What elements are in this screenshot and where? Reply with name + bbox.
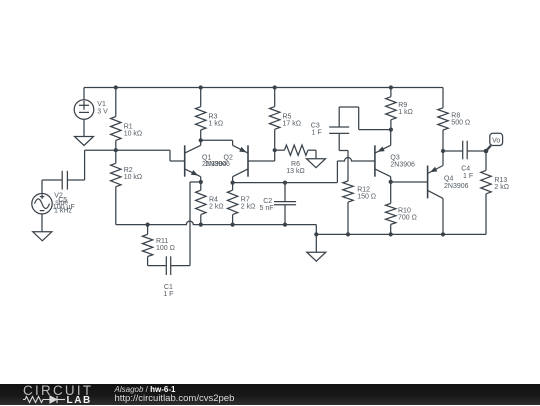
label C5 value — [53, 197, 75, 211]
wire top supply rail — [84, 87, 443, 89]
ground below V1 — [75, 137, 94, 146]
svg-text:1 kΩ: 1 kΩ — [209, 121, 224, 128]
wire lower emitter rail — [116, 221, 316, 234]
node R11 top — [146, 223, 150, 227]
svg-text:C4: C4 — [461, 166, 470, 173]
node top rail / R3 — [199, 85, 203, 89]
resistor R13 — [481, 151, 491, 234]
wire to Vo flag — [486, 146, 491, 151]
svg-text:R7: R7 — [241, 197, 250, 204]
label C2 5 nF — [260, 198, 274, 212]
svg-text:2 kΩ: 2 kΩ — [209, 204, 224, 211]
resistor R7 — [227, 183, 237, 225]
svg-text:1 F: 1 F — [312, 130, 322, 137]
resistor R10 — [386, 182, 396, 235]
svg-text:R10: R10 — [398, 208, 411, 215]
svg-text:1 F: 1 F — [163, 291, 173, 298]
svg-text:R3: R3 — [209, 114, 218, 121]
voltage source V2 — [32, 194, 52, 214]
svg-text:10 kΩ: 10 kΩ — [124, 131, 142, 138]
label R5 17 k — [283, 114, 301, 128]
label R13 2 k — [494, 177, 509, 191]
svg-text:R12: R12 — [357, 187, 370, 194]
capacitor C3 — [329, 107, 391, 133]
wire Q3 collector to Q4 base — [391, 181, 428, 183]
resistor R6 — [275, 145, 316, 159]
node R12 bottom — [346, 232, 350, 236]
svg-text:10 kΩ: 10 kΩ — [124, 174, 142, 181]
node R5/R6/Q2 base — [273, 148, 277, 152]
wire V2 to ground — [41, 214, 43, 232]
capacitor C4 — [443, 141, 486, 160]
svg-text:V1: V1 — [97, 101, 106, 108]
wire Q1 emitter to C1 — [171, 182, 201, 266]
resistor R1 — [111, 88, 121, 151]
resistor R4 — [196, 182, 206, 225]
svg-text:R5: R5 — [283, 114, 292, 121]
svg-text:Q4: Q4 — [444, 176, 453, 183]
node C2 bottom — [283, 223, 287, 227]
node R10 bottom — [389, 232, 393, 236]
label C3 1 F — [311, 122, 322, 136]
flag Vo — [490, 133, 503, 145]
svg-text:100 μF: 100 μF — [53, 204, 75, 211]
svg-text:700 Ω: 700 Ω — [398, 215, 417, 222]
svg-text:C5: C5 — [58, 197, 67, 204]
label V2 sine source — [54, 192, 72, 214]
svg-text:1 kΩ: 1 kΩ — [398, 109, 413, 116]
label V1 3 V — [97, 101, 108, 115]
svg-text:R13: R13 — [494, 177, 507, 184]
svg-text:C2: C2 — [263, 198, 272, 205]
svg-text:C1: C1 — [164, 284, 173, 291]
node bottom ground — [314, 232, 318, 236]
wire V1 to top rail — [83, 88, 85, 100]
ground at R6 — [307, 159, 326, 168]
transistor Q3 — [375, 130, 391, 182]
resistor R11 — [142, 225, 152, 266]
node Q1 emitter — [199, 180, 203, 184]
wire C3 to R12 — [339, 133, 348, 181]
svg-text:13 kΩ: 13 kΩ — [286, 168, 304, 175]
svg-text:150 Ω: 150 Ω — [357, 194, 376, 201]
capacitor C2 — [274, 183, 296, 225]
label R4 2 k — [209, 197, 224, 211]
label R1 10 k — [124, 123, 142, 137]
label C1 1 F — [163, 284, 173, 298]
svg-text:1 F: 1 F — [463, 173, 473, 180]
svg-text:2N3906: 2N3906 — [444, 183, 469, 190]
svg-text:R8: R8 — [451, 113, 460, 120]
node Q1 collector — [199, 138, 203, 142]
node C2 top — [283, 181, 287, 185]
label R12 150 — [357, 187, 376, 201]
node top rail / R5 — [273, 85, 277, 89]
node Q4 emitter / C4 — [441, 149, 445, 153]
transistor Q2 — [233, 140, 248, 182]
wire Q2 collector to Q3 base — [233, 158, 375, 183]
ground at bottom rail — [307, 252, 326, 261]
label R9 1 k — [398, 102, 413, 116]
label R6 13 k — [286, 161, 304, 175]
svg-text:500 Ω: 500 Ω — [451, 120, 470, 127]
node Q4 collector bottom — [441, 232, 445, 236]
node Vo — [484, 149, 489, 154]
arrow Q2 emitter — [239, 147, 246, 153]
wire divider to C5 — [67, 150, 84, 180]
node Q3 collector — [389, 180, 393, 184]
label Q2 — [205, 154, 233, 168]
svg-text:R11: R11 — [156, 238, 168, 245]
transistor Q1 — [185, 140, 201, 182]
svg-text:Vo: Vo — [492, 137, 500, 144]
voltage source V1 — [74, 100, 94, 120]
label C4 1 F — [461, 166, 473, 180]
label R7 2 k — [241, 197, 256, 211]
svg-text:C3: C3 — [311, 122, 320, 129]
svg-text:R2: R2 — [124, 167, 133, 174]
node R9 / Q3 emitter — [389, 128, 393, 132]
resistor R2 — [111, 150, 121, 224]
wire base feed — [85, 150, 185, 161]
arrow Q3 emitter — [377, 147, 384, 152]
svg-text:R9: R9 — [398, 102, 407, 109]
svg-text:R1: R1 — [124, 123, 133, 130]
svg-text:R4: R4 — [209, 197, 218, 204]
svg-text:2 kΩ: 2 kΩ — [241, 204, 256, 211]
node R4 lower — [199, 223, 203, 227]
svg-text:2N3906: 2N3906 — [205, 161, 230, 168]
svg-text:R6: R6 — [291, 161, 300, 168]
logo CircuitLab — [23, 384, 93, 397]
capacitor C5 — [42, 171, 67, 190]
wire Q2 base — [248, 150, 275, 161]
transistor Q4 — [428, 151, 443, 234]
label R11 100 — [156, 238, 175, 252]
node top rail / R1 — [114, 85, 118, 89]
arrow Q1 emitter — [191, 170, 198, 176]
svg-text:2 kΩ: 2 kΩ — [494, 184, 509, 191]
arrow Q4 emitter — [430, 167, 437, 173]
wire V1 to ground — [83, 119, 85, 136]
resistor R5 — [270, 88, 280, 151]
label Q4 — [444, 176, 469, 190]
svg-text:3 V: 3 V — [97, 108, 108, 115]
svg-text:Q3: Q3 — [390, 154, 399, 161]
resistor R9 — [386, 88, 396, 130]
wire C5 to V2 — [41, 180, 43, 194]
svg-text:2N3906: 2N3906 — [390, 162, 415, 169]
svg-text:100 Ω: 100 Ω — [156, 245, 175, 252]
svg-text:17 kΩ: 17 kΩ — [283, 121, 301, 128]
wire Q1 collector to Q2 emitter — [201, 139, 233, 141]
node Q2 collector — [231, 181, 235, 185]
svg-text:5 nF: 5 nF — [260, 205, 274, 212]
ground below V2 — [33, 232, 52, 241]
wire ground stub — [315, 234, 317, 252]
node top rail / R9 — [389, 85, 393, 89]
node R1/R2 divider — [114, 148, 118, 152]
resistor R3 — [196, 88, 206, 141]
node R7 lower — [231, 223, 235, 227]
resistor R12 — [343, 181, 353, 234]
label R8 500 — [451, 113, 470, 127]
label R3 1 k — [209, 114, 224, 128]
label Q3 — [390, 154, 415, 168]
label Q1 — [202, 154, 227, 168]
capacitor C1 — [148, 256, 171, 275]
label R10 700 — [398, 208, 417, 222]
wire bottom rail — [316, 233, 486, 235]
resistor R8 — [438, 88, 448, 152]
label R2 10 k — [124, 167, 142, 181]
